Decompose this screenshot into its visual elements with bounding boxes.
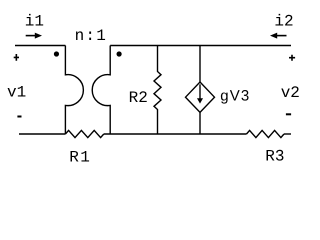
svg-text:R2: R2 — [129, 89, 148, 107]
current arrow i2 — [270, 33, 287, 39]
svg-text:n:1: n:1 — [75, 27, 107, 45]
wire top-left port to transformer primary — [15, 45, 65, 47]
svg-text:i1: i1 — [25, 12, 44, 30]
current source arrow inside diamond — [197, 84, 203, 103]
svg-text:gV3: gV3 — [220, 88, 250, 105]
polarity dot secondary — [117, 51, 122, 56]
wire bottom middle R1 to R3 — [104, 133, 247, 135]
dependent current source gV3 diamond — [186, 82, 215, 112]
wire top-right from secondary to output port — [110, 45, 291, 47]
svg-text:i2: i2 — [274, 12, 293, 30]
minus sign v1 — [17, 116, 21, 118]
inductor L1 transformer primary winding — [65, 46, 83, 135]
svg-text:R3: R3 — [265, 147, 284, 165]
wire bottom-left port to R1 — [19, 133, 65, 135]
resistor R3 — [247, 130, 285, 137]
wire dependent source top lead — [199, 46, 201, 83]
current arrow i1 — [26, 33, 42, 39]
resistor R1 — [65, 130, 103, 137]
minus sign v2 — [286, 113, 291, 115]
svg-text:R1: R1 — [69, 148, 91, 166]
plus sign v1 — [14, 54, 19, 61]
svg-text:v2: v2 — [281, 84, 300, 102]
svg-text:v1: v1 — [7, 83, 26, 101]
inductor L2 transformer secondary winding — [92, 46, 110, 135]
wire dependent source bottom lead — [199, 112, 201, 134]
plus sign v2 — [289, 55, 295, 61]
polarity dot primary — [54, 51, 59, 56]
resistor R2 — [154, 46, 161, 135]
wire bottom-right R3 to output port — [284, 133, 291, 135]
